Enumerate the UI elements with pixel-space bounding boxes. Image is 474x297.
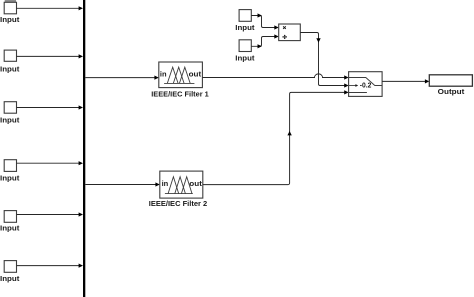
svg-text:Input: Input (0, 175, 20, 182)
wire switch to output (382, 79, 429, 83)
input I3 (4, 102, 16, 114)
svg-text:IEEE/IEC Filter 1: IEEE/IEC Filter 1 (151, 92, 209, 99)
svg-text:Input: Input (235, 25, 255, 32)
wire I1 to mux (17, 6, 84, 10)
input I4 (4, 160, 16, 172)
divide block U1 (279, 24, 301, 41)
input IA (top) (239, 10, 251, 22)
wire I2 to mux (17, 54, 84, 58)
switch block SW1 (349, 72, 383, 97)
wire I5 to mux (17, 212, 84, 216)
svg-text:Input: Input (0, 67, 20, 74)
svg-text:Input: Input (0, 276, 20, 283)
svg-text:in: in (160, 69, 167, 78)
svg-text:-0.2: -0.2 (360, 80, 372, 89)
input I1 (4, 0, 16, 14)
svg-text:Input: Input (0, 225, 20, 232)
svg-text:out: out (189, 179, 202, 188)
filter block F1 (159, 62, 203, 88)
input I2 (4, 50, 16, 61)
wire I3 to mux (17, 105, 84, 109)
svg-text:out: out (189, 69, 202, 78)
svg-text:Input: Input (0, 17, 20, 24)
wire I4 to mux (17, 161, 84, 165)
mux bus bar (83, 0, 85, 297)
input I6 (4, 261, 16, 273)
wire filter2 to switch port3 (203, 90, 349, 184)
svg-text:Input: Input (0, 117, 20, 124)
wire filter1 to switch port1 (with hop) (202, 74, 348, 80)
svg-text:Output: Output (438, 89, 465, 96)
output block (429, 75, 472, 86)
svg-text:Input: Input (235, 55, 255, 62)
wire IA to product (251, 13, 278, 29)
wire mux to filter2 (85, 182, 160, 186)
wire divide to switch port2 (control) (300, 33, 348, 88)
svg-text:IEEE/IEC Filter 2: IEEE/IEC Filter 2 (149, 201, 208, 208)
input IB (bottom) (239, 40, 251, 52)
wire I6 to mux (17, 264, 84, 268)
wire IB to product (251, 34, 278, 48)
svg-text:in: in (162, 179, 169, 188)
filter block F2 (160, 171, 203, 198)
input I5 (4, 211, 16, 223)
wire mux to filter1 (85, 76, 159, 80)
